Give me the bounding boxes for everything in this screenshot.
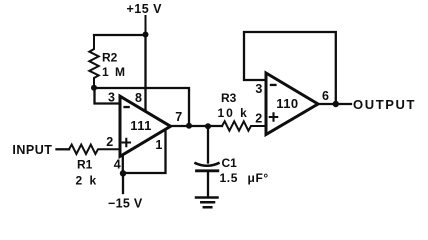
svg-text:R3: R3 (221, 91, 237, 105)
wire C1 to ground (207, 172, 209, 197)
svg-text:110: 110 (276, 96, 298, 111)
wire -15V lead (122, 173, 124, 193)
op-amp U1 (LM111) (120, 96, 171, 156)
pin 4 stub of U1 (122, 154, 124, 173)
node output junction (333, 101, 339, 107)
svg-text:R2: R2 (102, 51, 118, 65)
svg-text:2: 2 (255, 112, 262, 126)
svg-text:4: 4 (114, 157, 121, 171)
svg-text:10 k: 10 k (218, 106, 249, 120)
svg-text:3: 3 (108, 90, 115, 104)
capacitor C1 top plate (196, 163, 219, 166)
svg-text:8: 8 (135, 91, 142, 105)
wire U2 output (318, 103, 352, 105)
svg-text:−15 V: −15 V (108, 197, 143, 211)
svg-text:2 k: 2 k (76, 173, 99, 187)
node +15V junction (143, 32, 149, 38)
node R2 bottom junction (91, 85, 97, 91)
node feedback/output junction (186, 123, 192, 129)
svg-text:3: 3 (255, 82, 262, 96)
node C1 tap junction (205, 123, 211, 129)
svg-text:+15 V: +15 V (127, 2, 163, 16)
svg-text:111: 111 (130, 118, 151, 133)
resistor R1 (69, 145, 120, 154)
svg-text:R1: R1 (77, 157, 93, 171)
svg-text:1: 1 (155, 138, 162, 152)
wire pin 1 to pin 4 (123, 128, 166, 173)
wire feedback loop U2: pin3 left, up, across, down to output (244, 32, 336, 103)
minus sign U2 (270, 84, 277, 86)
wire C1 lead down (207, 126, 209, 162)
op-amp U2 (LM110) (266, 73, 318, 135)
plus sign U1 (123, 139, 130, 146)
wire INPUT lead (57, 148, 70, 150)
resistor R2 (89, 35, 98, 88)
resistor R3 (222, 121, 266, 130)
wire +15V node to R2 top (94, 34, 146, 36)
plus sign U2 (270, 113, 277, 120)
svg-text:C1: C1 (222, 156, 238, 170)
wire U1 output to R3 (170, 125, 222, 127)
wire +15V lead down (145, 16, 147, 35)
wire +15V rail to pin 8 of U1 (144, 35, 146, 111)
wire feedback R2 node to U1 output (94, 88, 189, 125)
svg-text:7: 7 (175, 110, 182, 124)
wire R2 node to pin 3 of U1 (95, 88, 121, 104)
svg-text:6: 6 (322, 89, 329, 103)
ground (196, 198, 218, 208)
svg-text:INPUT: INPUT (12, 143, 52, 157)
capacitor C1 bottom plate (197, 169, 218, 172)
minus sign U1 (123, 106, 129, 108)
node pin4 / -15V junction (120, 170, 126, 176)
svg-text:OUTPUT: OUTPUT (353, 97, 416, 112)
svg-text:1 M: 1 M (102, 65, 127, 79)
svg-text:2: 2 (106, 135, 113, 149)
